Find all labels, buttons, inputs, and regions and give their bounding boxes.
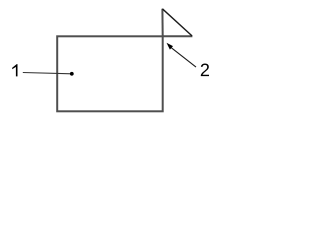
- leader dot: [70, 72, 74, 76]
- flag hypotenuse: [162, 9, 192, 36]
- flag pole line: [161, 9, 163, 37]
- flag bottom line: [163, 35, 193, 37]
- leader line 1: [23, 73, 72, 74]
- rectangle body: [57, 36, 163, 111]
- arrow 2 shaft: [171, 48, 196, 67]
- arrow 2 head: [167, 43, 174, 50]
- label 1: [12, 64, 17, 76]
- label 2: [201, 64, 209, 77]
